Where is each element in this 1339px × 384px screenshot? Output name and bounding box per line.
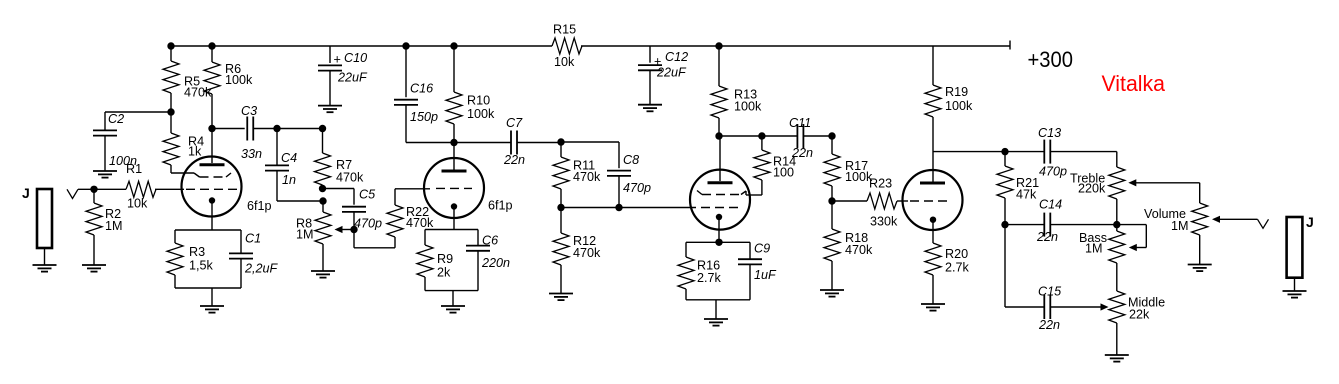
svg-text:1n: 1n — [282, 173, 296, 187]
svg-text:C4: C4 — [281, 151, 297, 165]
ground R8 — [311, 271, 335, 278]
capacitor C14 — [1005, 198, 1062, 245]
junction plate V2 — [450, 139, 457, 146]
wire +300 rail left segment — [171, 45, 552, 47]
svg-text:33n: 33n — [241, 147, 262, 161]
junction R8 top — [319, 197, 326, 204]
title Vitalka — [1102, 71, 1166, 96]
wire cathode network V2 top — [425, 229, 478, 231]
ground R20 — [921, 304, 945, 311]
svg-text:J: J — [22, 185, 30, 201]
svg-text:470p: 470p — [623, 181, 651, 195]
svg-text:470p: 470p — [1039, 165, 1067, 179]
capacitor C7 — [503, 116, 525, 167]
grid V2 — [436, 187, 472, 189]
svg-text:R3: R3 — [189, 245, 205, 259]
jack J1 input — [22, 185, 52, 248]
svg-text:+: + — [334, 53, 341, 67]
resistor R11 — [553, 142, 601, 208]
wire R11-C8 bottom — [561, 207, 619, 209]
svg-text:R15: R15 — [553, 23, 576, 37]
wire R23 to grid V4 — [897, 200, 908, 202]
svg-text:470k: 470k — [573, 246, 601, 260]
junction rail-R10 — [450, 42, 457, 49]
svg-text:C3: C3 — [241, 104, 257, 118]
anode V1 — [200, 163, 225, 166]
resistor R16 — [678, 242, 722, 299]
svg-text:2.7k: 2.7k — [945, 261, 970, 275]
junction R11 bottom — [557, 204, 564, 211]
grid V4 — [910, 200, 951, 202]
control grid V1 — [186, 188, 237, 190]
wire C4 bottom to R8 — [277, 200, 323, 202]
wire R7 bottom to C5 — [323, 189, 355, 205]
svg-text:Vitalka: Vitalka — [1102, 71, 1166, 96]
junction rail-R5 — [167, 42, 174, 49]
resistor R14 — [746, 136, 796, 195]
wire R4 to screen grid — [171, 173, 200, 177]
svg-text:470k: 470k — [336, 171, 364, 185]
svg-text:1uF: 1uF — [754, 268, 777, 282]
potentiometer Treble 220k — [1070, 167, 1125, 225]
wire R14 to C11 — [762, 135, 797, 137]
svg-text:C6: C6 — [482, 234, 498, 248]
anode V4 — [920, 182, 945, 185]
capacitor C5 — [342, 188, 382, 248]
ground Middle — [1105, 355, 1129, 362]
resistor R19 — [925, 46, 973, 182]
svg-text:22n: 22n — [1038, 318, 1060, 332]
ground C12 — [638, 105, 662, 112]
junction plate V3 — [715, 132, 722, 139]
ground cathode V3 — [704, 319, 728, 326]
junction rail-C16 — [402, 42, 409, 49]
capacitor C4 — [265, 129, 297, 202]
resistor R22 — [387, 189, 434, 248]
svg-text:C1: C1 — [245, 232, 261, 246]
svg-text:100: 100 — [773, 166, 794, 180]
wire plate V3 to R14 — [719, 135, 762, 137]
potentiometer Bass 1M — [1079, 225, 1125, 263]
svg-text:R20: R20 — [945, 247, 968, 261]
capacitor C8 — [607, 153, 651, 208]
ground R12 — [549, 294, 573, 301]
anode V2 — [442, 170, 467, 173]
svg-text:1k: 1k — [188, 145, 202, 159]
wire anode V3 — [719, 136, 721, 181]
resistor R18 — [824, 201, 873, 290]
svg-text:220k: 220k — [1078, 182, 1106, 196]
resistor R5 — [163, 46, 212, 112]
resistor R6 — [204, 46, 253, 129]
wire plate V1 to C3 — [212, 128, 245, 130]
capacitor C10 — [318, 46, 368, 106]
ground cathode V1 — [200, 306, 224, 313]
wiper Volume — [1212, 216, 1258, 223]
node +300 label — [1028, 47, 1074, 72]
potentiometer Volume 1M — [1144, 203, 1208, 265]
wire C5 to R22 — [354, 247, 395, 249]
svg-text:+300: +300 — [1028, 47, 1074, 72]
svg-text:R19: R19 — [945, 85, 968, 99]
junction R5-R4-C2 — [167, 108, 174, 115]
junction C8 bottom — [615, 204, 622, 211]
wiper Middle — [1050, 303, 1108, 310]
svg-text:100k: 100k — [734, 100, 762, 114]
control grid V3 — [701, 207, 742, 209]
junction rail-R13 — [715, 42, 722, 49]
svg-text:22n: 22n — [503, 153, 525, 167]
svg-text:470k: 470k — [573, 170, 601, 184]
svg-text:10k: 10k — [554, 55, 575, 69]
svg-text:1M: 1M — [1085, 242, 1103, 256]
jack J2 output — [1287, 214, 1314, 278]
svg-text:1M: 1M — [105, 219, 123, 233]
svg-text:47k: 47k — [1016, 188, 1037, 202]
junction R7 bottom — [319, 185, 326, 192]
junction tone stack top — [1001, 148, 1008, 155]
svg-text:C2: C2 — [108, 112, 124, 126]
resistor R4 — [163, 112, 204, 173]
junction R21 bottom — [1001, 221, 1008, 228]
junction cathode network V3 — [715, 239, 722, 246]
resistor R9 — [417, 230, 453, 291]
ground C2 — [93, 171, 117, 178]
junction input node — [90, 186, 97, 193]
ground jack J1 — [33, 265, 57, 272]
svg-text:C10: C10 — [344, 51, 367, 65]
wire input to R1 — [78, 188, 126, 190]
wire junction to R23 — [832, 200, 867, 202]
wire C13 to Treble — [1050, 152, 1117, 167]
svg-text:470k: 470k — [406, 216, 434, 230]
svg-text:C9: C9 — [754, 242, 770, 256]
svg-text:2.7k: 2.7k — [697, 271, 722, 285]
svg-text:22n: 22n — [1036, 230, 1058, 244]
wire to grid V3 — [619, 207, 696, 209]
svg-text:330k: 330k — [870, 215, 898, 229]
resistor R7 — [315, 129, 365, 189]
resistor R12 — [553, 208, 601, 294]
svg-text:C7: C7 — [506, 116, 523, 130]
svg-text:C11: C11 — [789, 116, 811, 130]
wire +300 rail right segment — [581, 41, 1010, 50]
wire cathode network V3 top — [686, 241, 750, 243]
anode V3 — [708, 181, 733, 184]
junction C5-wiper — [350, 226, 357, 233]
capacitor C1 — [229, 230, 279, 288]
svg-text:100k: 100k — [225, 73, 253, 87]
svg-text:C12: C12 — [665, 50, 688, 64]
wire anode V2 — [453, 143, 455, 170]
capacitor C13 — [1005, 126, 1067, 179]
capacitor C3 — [241, 104, 262, 161]
resistor R2 — [86, 189, 123, 265]
svg-text:1M: 1M — [1171, 219, 1189, 233]
cathode V1 — [209, 197, 215, 230]
wire node A to R7 — [277, 128, 323, 130]
svg-text:100k: 100k — [945, 99, 973, 113]
svg-text:22k: 22k — [1129, 308, 1150, 322]
capacitor C11 — [789, 116, 813, 160]
junction plate V1 — [208, 125, 215, 132]
svg-text:220n: 220n — [481, 256, 510, 270]
capacitor C15 — [1038, 285, 1062, 333]
capacitor C6 — [466, 230, 510, 291]
junction R14 top — [758, 132, 765, 139]
svg-text:C15: C15 — [1038, 285, 1062, 299]
svg-text:C5: C5 — [359, 188, 376, 202]
wire treble wiper to Volume — [1199, 183, 1201, 203]
wire Bass to Middle — [1116, 263, 1118, 291]
svg-text:R10: R10 — [467, 94, 490, 108]
potentiometer Middle 22k — [1109, 291, 1165, 355]
wiper Treble — [1128, 179, 1199, 186]
wire C3 to node A — [253, 128, 277, 130]
resistor R15 — [552, 23, 582, 70]
wire C14 to Bass junction — [1050, 224, 1117, 226]
resistor R10 — [446, 46, 495, 143]
junction Treble-Bass-C14 — [1113, 221, 1120, 228]
ground Volume — [1188, 265, 1212, 272]
arrow V input — [67, 189, 78, 198]
svg-text:R9: R9 — [437, 252, 453, 266]
junction node A (C4 top) — [273, 125, 280, 132]
wire cathode network V3 bottom — [686, 300, 750, 319]
capacitor C2 — [93, 112, 171, 171]
screen grid V3 — [697, 191, 746, 195]
wire cathode network top — [175, 229, 241, 231]
tube U3 6f1p pentode — [690, 170, 750, 230]
junction R17 top — [828, 132, 835, 139]
svg-text:470k: 470k — [845, 243, 873, 257]
resistor R17 — [824, 136, 873, 201]
svg-text:1M: 1M — [296, 228, 314, 242]
svg-text:C13: C13 — [1038, 126, 1061, 140]
cathode V2 — [451, 203, 457, 229]
svg-text:6f1p: 6f1p — [488, 199, 513, 213]
svg-text:22uF: 22uF — [337, 71, 368, 85]
wire plate V4 to tone stack — [933, 151, 1005, 153]
wire plate V2 to C7 — [454, 142, 511, 144]
junction R17-R18-R23 — [828, 197, 835, 204]
junction R11 top — [557, 138, 564, 145]
wire cathode network bottom — [175, 288, 241, 306]
wire R1 to grid — [155, 188, 184, 190]
junction R7 top — [319, 125, 326, 132]
capacitor C9 — [738, 242, 777, 300]
wire C11 to R17 — [803, 135, 832, 137]
wiper Bass — [1117, 225, 1147, 252]
wire cathode network V2 bottom — [425, 291, 478, 306]
wiper R8 — [335, 226, 355, 233]
svg-text:22uF: 22uF — [656, 66, 687, 80]
svg-text:2k: 2k — [437, 266, 451, 280]
ground C10 — [318, 106, 342, 113]
wire C15 branch — [1005, 225, 1045, 307]
wire C16 bottom — [406, 142, 454, 144]
wire jack J2 ground stem — [1294, 278, 1296, 291]
svg-text:C8: C8 — [623, 153, 639, 167]
screen grid V1 — [200, 173, 232, 177]
wire anode V1 — [211, 129, 213, 164]
ground jack J2 — [1283, 291, 1307, 298]
svg-text:C14: C14 — [1039, 198, 1062, 212]
resistor R1 — [126, 162, 156, 211]
svg-text:470p: 470p — [354, 217, 382, 231]
wire jack ground stem — [44, 248, 46, 265]
potentiometer R8 1M — [296, 201, 331, 271]
junction rail-R6 — [208, 42, 215, 49]
wire C7 to R11 — [517, 142, 561, 144]
capacitor C12 — [638, 46, 688, 105]
cathode V3 — [716, 214, 722, 243]
svg-text:C16: C16 — [410, 82, 433, 96]
cathode V4 — [930, 217, 936, 244]
svg-text:100k: 100k — [467, 107, 495, 121]
resistor R20 — [925, 243, 970, 304]
ground R2 — [82, 265, 106, 272]
capacitor C16 — [394, 46, 438, 143]
ground cathode V2 — [441, 306, 465, 313]
svg-text:100n: 100n — [109, 154, 137, 168]
svg-text:2,2uF: 2,2uF — [244, 262, 279, 276]
svg-text:150p: 150p — [410, 110, 438, 124]
tube U1 6f1p pentode — [182, 157, 272, 217]
resistor R3 — [167, 230, 214, 288]
wire R22 to grid V2 — [395, 188, 430, 190]
ground R18 — [820, 290, 844, 297]
resistor R21 — [997, 152, 1039, 225]
tube U2 6f1p triode — [424, 158, 513, 218]
resistor R13 — [711, 46, 762, 136]
svg-text:6f1p: 6f1p — [247, 199, 272, 213]
wire R11 top to C8 — [561, 142, 619, 168]
svg-text:1,5k: 1,5k — [189, 259, 214, 273]
svg-text:J: J — [1306, 214, 1314, 230]
svg-text:R23: R23 — [869, 177, 892, 191]
arrow V output — [1258, 219, 1269, 228]
tube U4 6f1p triode — [903, 170, 963, 230]
resistor R23 — [867, 177, 898, 229]
svg-text:10k: 10k — [127, 197, 148, 211]
